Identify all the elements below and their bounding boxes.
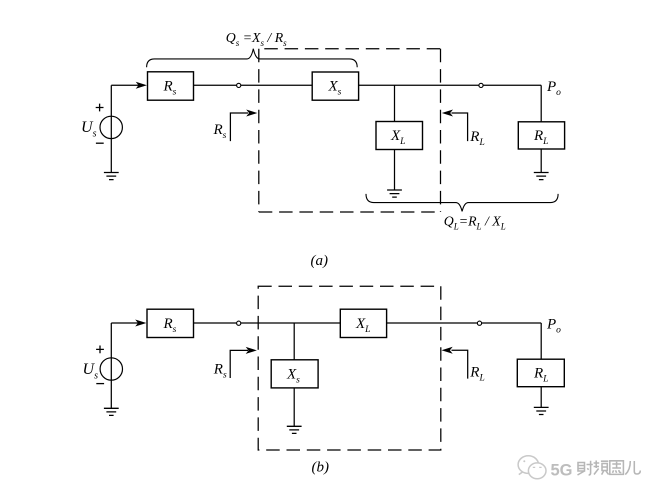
ground under X_s (b): [287, 426, 302, 433]
top curly brace Q_s (a): [147, 49, 358, 68]
resistor box R_s (b): [147, 309, 194, 337]
wire output corner down to R_L (a): [540, 85, 542, 122]
dashed matching-network box (a) left edge: [258, 49, 260, 212]
load box R_L (b): [517, 359, 564, 387]
plus sign of U_s (b): [96, 346, 104, 354]
svg-text:Po: Po: [546, 79, 561, 98]
svg-text:Us: Us: [81, 119, 97, 140]
resistor box R_s (a): [148, 72, 194, 100]
svg-text:Qs =Xs / Rs: Qs =Xs / Rs: [226, 30, 287, 48]
wire R_L to ground (a): [540, 149, 542, 172]
wire X_s to output corner (a): [359, 84, 542, 86]
svg-text:Rs: Rs: [163, 316, 177, 335]
watermark logo eye of big bubble: [523, 460, 525, 462]
node circle right (a): [479, 83, 483, 87]
plus sign of U_s (a): [96, 104, 104, 112]
arrowhead into R_s (b): [135, 320, 146, 327]
reactance box X_s (a): [312, 72, 358, 100]
wire R_s to X_s (a): [194, 84, 313, 86]
svg-text:Rs: Rs: [213, 361, 227, 380]
reactance box X_L series (b): [340, 309, 386, 337]
ground under R_L (b): [534, 407, 549, 414]
wire R_s to X_L (b): [194, 322, 341, 324]
node circle left (a): [237, 83, 241, 87]
arrowhead of R_L measuring arrow (b): [442, 347, 453, 354]
wire junction down to X_s (b): [293, 323, 295, 360]
svg-text:Rs: Rs: [213, 122, 227, 141]
svg-text:(b): (b): [312, 460, 330, 476]
svg-text:RL: RL: [469, 365, 484, 384]
wire output corner down to R_L (b): [540, 323, 542, 359]
ground under source (a): [104, 173, 119, 180]
dashed matching-network box (a) top edge: [264, 48, 440, 50]
arrowhead of R_s measuring arrow (b): [246, 347, 257, 354]
load box R_L (a): [518, 122, 564, 149]
wire X_L to ground (a): [394, 150, 396, 190]
arrowhead of R_s measuring arrow (a): [246, 110, 257, 117]
svg-text:XL: XL: [390, 128, 405, 147]
bottom curly brace Q_L (a): [366, 194, 558, 212]
svg-text:Xs: Xs: [286, 367, 300, 386]
dashed matching-network box (a) right edge: [440, 49, 442, 212]
wire source to R_s (b): [111, 322, 140, 324]
svg-text:RL: RL: [469, 129, 484, 148]
watermark logo big chat bubble: [518, 456, 538, 474]
watermark hanzi 圈: [610, 461, 624, 475]
svg-text:RL: RL: [533, 366, 548, 385]
svg-text:Rs: Rs: [163, 79, 177, 98]
measuring arrow R_s looking into network (a): [230, 113, 248, 141]
node circle right (b): [477, 321, 481, 325]
svg-text:XL: XL: [355, 316, 370, 335]
wire junction down to X_L (a): [394, 85, 396, 121]
watermark hanzi 频: [594, 461, 609, 475]
svg-text:Po: Po: [546, 317, 561, 336]
arrowhead into R_s (a): [136, 82, 147, 89]
ground under source (b): [104, 408, 119, 415]
svg-text:5G: 5G: [551, 461, 573, 479]
voltage source U1 circle (a): [100, 116, 122, 138]
wire R_L to ground (b): [540, 387, 542, 408]
ground under X_L (a): [387, 190, 402, 197]
ground under R_L (a): [534, 173, 549, 180]
measuring arrow R_L looking back (a): [452, 113, 468, 141]
svg-text:RL: RL: [533, 128, 548, 147]
dashed matching-network box (b): [258, 286, 441, 450]
svg-text:Us: Us: [83, 361, 99, 382]
wire source vertical (b): [110, 323, 112, 408]
measuring arrow R_s looking into network (b): [230, 350, 248, 378]
minus sign of U_s (b): [96, 383, 104, 385]
wire X_s to ground (b): [293, 388, 295, 426]
reactance box X_L shunt (a): [376, 122, 423, 150]
watermark hanzi 射: [578, 461, 641, 476]
watermark logo small chat bubble: [528, 463, 546, 479]
voltage source U2 circle (b): [100, 358, 122, 380]
reactance box X_s shunt (b): [271, 360, 318, 388]
wire source vertical (a): [110, 85, 112, 172]
svg-text:QL=RL / XL: QL=RL / XL: [444, 214, 506, 232]
svg-text:Xs: Xs: [328, 79, 342, 98]
wire X_L to output corner (b): [387, 322, 542, 324]
watermark hanzi 儿: [625, 461, 640, 475]
dashed matching-network box (a) bottom edge: [259, 211, 441, 213]
watermark logo eyes of small bubble: [533, 466, 542, 468]
arrowhead of R_L measuring arrow (a): [442, 110, 453, 117]
minus sign of U_s (a): [96, 142, 104, 144]
measuring arrow R_L looking back (b): [452, 350, 468, 378]
watermark logo bubble tail: [519, 472, 523, 475]
wire source to R_s (a): [111, 84, 140, 86]
svg-text:(a): (a): [311, 253, 329, 269]
node circle left (b): [237, 321, 241, 325]
